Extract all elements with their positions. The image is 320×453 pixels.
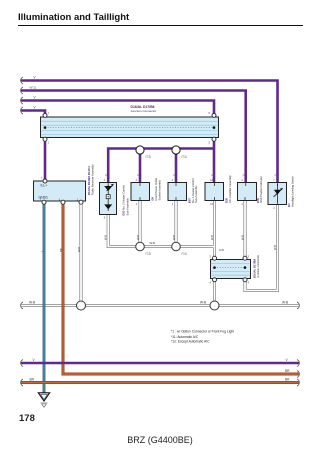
svg-text:BR: BR bbox=[59, 248, 63, 252]
svg-text:Sub-Assembly: Sub-Assembly bbox=[126, 198, 130, 216]
svg-text:W-B: W-B bbox=[77, 247, 81, 252]
svg-text:4: 4 bbox=[136, 179, 138, 182]
svg-text:W-B: W-B bbox=[136, 235, 140, 240]
svg-text:6: 6 bbox=[104, 216, 106, 219]
svg-text:(*11): (*11) bbox=[182, 253, 187, 256]
svg-text:ILL+: ILL+ bbox=[41, 184, 48, 188]
svg-text:D33 No. 2 Heater Control: D33 No. 2 Heater Control bbox=[122, 185, 126, 216]
svg-text:4: 4 bbox=[210, 281, 212, 285]
svg-text:Front Power Outlet: Front Power Outlet bbox=[154, 178, 158, 201]
svg-text:1: 1 bbox=[48, 141, 50, 145]
svg-text:V: V bbox=[242, 174, 246, 176]
svg-text:S-W: S-W bbox=[219, 249, 225, 252]
svg-text:(*12): (*12) bbox=[146, 253, 152, 256]
svg-text:BR: BR bbox=[285, 369, 290, 373]
svg-text:BR: BR bbox=[285, 378, 290, 382]
svg-text:V: V bbox=[104, 174, 108, 176]
svg-text:Radio Receiver Assembly: Radio Receiver Assembly bbox=[91, 164, 95, 195]
svg-text:4: 4 bbox=[172, 179, 174, 182]
svg-text:W-B: W-B bbox=[210, 235, 214, 240]
svg-text:V: V bbox=[34, 106, 37, 110]
svg-text:(*11): (*11) bbox=[182, 156, 187, 159]
svg-text:V: V bbox=[33, 358, 36, 362]
svg-text:D13/AL D13/B5 D14/C1: D13/AL D13/B5 D14/C1 bbox=[87, 166, 91, 195]
svg-text:1: 1 bbox=[241, 203, 243, 206]
svg-text:1: 1 bbox=[172, 203, 174, 206]
svg-text:V: V bbox=[34, 76, 37, 80]
svg-text:V: V bbox=[273, 174, 277, 176]
svg-text:5: 5 bbox=[209, 111, 211, 115]
svg-text:W-B: W-B bbox=[273, 245, 277, 250]
svg-text:Junction Connector: Junction Connector bbox=[256, 255, 260, 278]
svg-text:D38: D38 bbox=[225, 198, 229, 203]
svg-text:W-B: W-B bbox=[172, 235, 176, 240]
svg-text:*12: Except Automatic A/C: *12: Except Automatic A/C bbox=[171, 340, 210, 344]
svg-text:Socket Assembly: Socket Assembly bbox=[158, 179, 162, 200]
svg-text:GND1: GND1 bbox=[39, 196, 49, 200]
svg-text:W-B: W-B bbox=[103, 235, 107, 240]
svg-text:V: V bbox=[136, 174, 140, 176]
svg-text:3: 3 bbox=[248, 255, 250, 259]
svg-text:Sub-Assembly: Sub-Assembly bbox=[194, 185, 198, 203]
svg-text:V: V bbox=[286, 358, 289, 362]
svg-text:A/C Amplifier Assembly: A/C Amplifier Assembly bbox=[228, 175, 232, 203]
svg-text:V(*1): V(*1) bbox=[30, 86, 36, 90]
svg-text:*1 : w/ Option Connector or F: *1 : w/ Option Connector or Front Fog Li… bbox=[171, 330, 234, 334]
svg-text:W-B: W-B bbox=[29, 301, 35, 305]
svg-text:Shift Position Indicator: Shift Position Indicator bbox=[259, 176, 263, 203]
svg-text:4: 4 bbox=[241, 179, 243, 182]
svg-text:Junction Connector: Junction Connector bbox=[131, 109, 157, 113]
svg-text:5: 5 bbox=[209, 141, 211, 145]
svg-text:W-B: W-B bbox=[150, 241, 156, 245]
svg-text:3: 3 bbox=[210, 255, 212, 259]
svg-text:V: V bbox=[34, 96, 37, 100]
svg-text:BR: BR bbox=[30, 378, 35, 382]
svg-text:D9: D9 bbox=[151, 197, 155, 201]
svg-text:4: 4 bbox=[248, 281, 250, 285]
svg-text:2: 2 bbox=[273, 207, 275, 210]
svg-text:7: 7 bbox=[273, 179, 275, 182]
svg-text:(*12): (*12) bbox=[146, 156, 152, 159]
svg-text:V: V bbox=[210, 174, 214, 176]
svg-text:V: V bbox=[172, 174, 176, 176]
svg-text:4: 4 bbox=[104, 179, 106, 182]
svg-text:W-B: W-B bbox=[200, 301, 206, 305]
svg-text:1: 1 bbox=[48, 111, 50, 115]
svg-text:1: 1 bbox=[136, 203, 138, 206]
svg-text:D16/AL D17/B6: D16/AL D17/B6 bbox=[253, 258, 257, 278]
svg-text:W-B: W-B bbox=[282, 301, 288, 305]
svg-text:7: 7 bbox=[41, 177, 43, 181]
svg-text:Headlight Leveling Switch: Headlight Leveling Switch bbox=[291, 176, 295, 207]
svg-text:*11: Automatic A/C: *11: Automatic A/C bbox=[171, 335, 199, 339]
svg-text:W-B: W-B bbox=[241, 235, 245, 240]
